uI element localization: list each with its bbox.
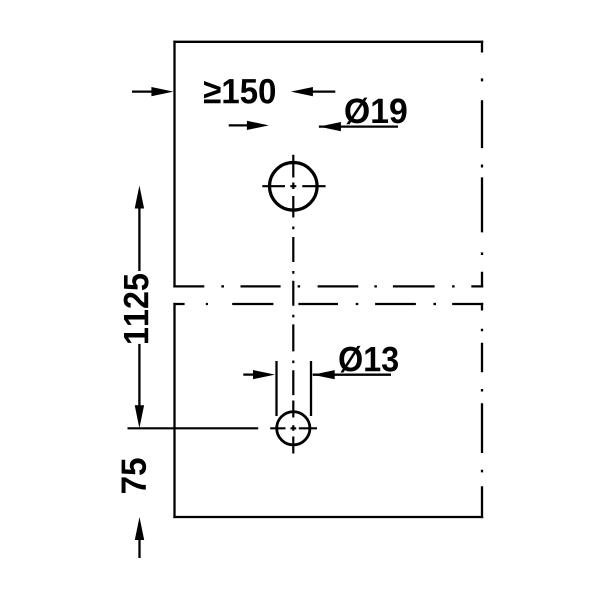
dimension 1125 down arrowhead xyxy=(135,405,144,428)
dimension 75 up arrowhead (below panel) xyxy=(135,517,144,540)
dimension >=150 right arrow shaft xyxy=(312,90,335,92)
dimension text >=150 xyxy=(204,79,275,104)
dimension text D13 xyxy=(339,346,398,373)
horizontal reference line from dimension 1125/75 to hole D13 center xyxy=(128,427,259,429)
dimension >=150 left arrowhead xyxy=(151,87,173,96)
dimension 1125 up arrowhead xyxy=(135,186,144,209)
hole circle D13 (lower) xyxy=(277,412,310,445)
dimension D13 left arrowhead xyxy=(253,370,275,379)
dimension D19 left arrow shaft xyxy=(229,124,248,126)
glass panel 2 (lower) bottom edge xyxy=(173,516,483,518)
extension line left of hole D13 xyxy=(275,361,277,416)
center mark of hole D13 xyxy=(270,401,317,454)
dimension text 1125 (rotated) xyxy=(124,274,149,343)
hole circle D19 (upper) xyxy=(270,163,318,211)
vertical centerline between holes (dash-dot) xyxy=(292,227,294,396)
glass panel 2 (lower) right break edge (dash-dot) xyxy=(481,303,483,518)
dimension D19 leader arrowhead xyxy=(319,122,341,131)
glass panel 2 (lower) left edge xyxy=(173,303,175,518)
dimension 1125 lower shaft xyxy=(138,344,140,407)
dimension 75 lower shaft xyxy=(138,539,140,559)
glass panel 2 (lower) top break line (dash-dot) xyxy=(173,303,483,305)
extension line right of hole D13 xyxy=(310,361,312,416)
glass panel 1 (upper) left edge xyxy=(173,41,175,288)
glass panel 1 (upper) right break edge (dash-dot) xyxy=(481,41,483,288)
dimension 1125 upper shaft xyxy=(138,207,140,271)
dimension >=150 left arrow shaft xyxy=(132,90,152,92)
glass panel 1 (upper) top edge xyxy=(173,41,483,43)
glass panel 1 (upper) bottom break line (dash-dot) xyxy=(173,285,483,287)
center mark of hole D19 xyxy=(262,155,325,218)
dimension D13 leader line xyxy=(313,374,391,376)
dimension >=150 right arrowhead xyxy=(291,87,313,96)
dimension D13 left arrow shaft xyxy=(243,373,255,375)
dimension text 75 (rotated) xyxy=(122,458,147,493)
dimension text D19 xyxy=(345,98,406,125)
dimension D19 leader line xyxy=(319,125,398,127)
dimension D13 leader arrowhead xyxy=(313,370,335,379)
dimension D19 left arrowhead xyxy=(247,121,269,130)
